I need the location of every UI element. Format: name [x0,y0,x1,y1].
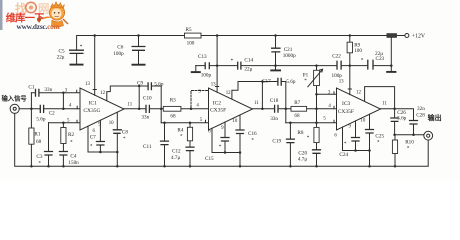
svg-text:33n: 33n [44,87,52,93]
svg-text:R2: R2 [68,132,74,138]
svg-text:100p: 100p [332,73,343,79]
svg-text:*: * [123,136,126,142]
svg-text:5.6p: 5.6p [286,79,295,85]
svg-text:*: * [80,44,83,50]
svg-text:C1: C1 [28,84,34,90]
svg-text:100p: 100p [201,72,212,78]
svg-text:IC2: IC2 [213,100,222,106]
svg-text:100p: 100p [113,51,124,57]
svg-text:C3: C3 [36,154,42,160]
svg-text:C8: C8 [122,130,128,136]
svg-text:*: * [180,133,183,139]
svg-text:*: * [307,135,310,141]
svg-text:68: 68 [294,113,300,119]
svg-text:10: 10 [360,118,365,123]
svg-text:C18: C18 [270,98,279,104]
svg-text:IC3: IC3 [342,101,351,107]
svg-text:C14: C14 [244,57,253,63]
svg-text:11: 11 [254,101,259,106]
svg-text:+12V: +12V [412,33,426,39]
svg-text:C23: C23 [376,56,385,62]
svg-text:100: 100 [187,41,195,47]
svg-text:R7: R7 [294,100,300,106]
svg-text:C12: C12 [172,149,181,155]
svg-text:C21: C21 [284,47,293,53]
svg-text:R5: R5 [186,27,192,33]
svg-text:C19: C19 [272,138,281,144]
svg-text:C20: C20 [298,150,307,156]
svg-text:R4: R4 [177,127,183,133]
svg-text:C24: C24 [339,152,348,158]
svg-text:输入信号: 输入信号 [2,93,28,102]
svg-text:*: * [38,161,41,167]
svg-text:13: 13 [339,79,344,84]
svg-text:C13: C13 [198,54,207,60]
svg-text:10: 10 [109,121,114,126]
svg-text:C16: C16 [248,131,257,137]
svg-text:11: 11 [382,101,387,106]
svg-text:C6: C6 [117,44,123,50]
svg-text:22μ: 22μ [57,55,65,61]
svg-text:22μ: 22μ [244,67,252,73]
svg-text:C28: C28 [416,112,425,118]
svg-text:C4: C4 [70,153,76,159]
svg-text:C22: C22 [332,53,341,59]
svg-text:C25: C25 [375,133,384,139]
svg-text:*: * [219,144,222,150]
svg-text:33n: 33n [141,114,149,120]
svg-text:CX35F: CX35F [210,108,226,114]
svg-text:*: * [344,141,347,147]
svg-text:C2: C2 [49,110,55,116]
svg-text:IC1: IC1 [89,101,98,107]
svg-text:CX35G: CX35G [83,108,100,114]
svg-text:*: * [90,144,93,150]
svg-text:100: 100 [354,48,362,54]
svg-text:输出: 输出 [428,113,442,122]
svg-text:5.6p: 5.6p [36,116,45,122]
svg-text:C17: C17 [262,79,271,85]
svg-text:CX35F: CX35F [338,109,354,115]
svg-text:C7: C7 [90,134,96,140]
svg-text:R3: R3 [170,97,176,103]
svg-text:*: * [361,57,364,63]
svg-text:68: 68 [36,139,42,145]
svg-text:12: 12 [100,91,105,96]
svg-text:10: 10 [232,119,237,124]
svg-text:68: 68 [170,113,176,119]
svg-text:5.6p: 5.6p [397,115,406,121]
svg-text:*: * [377,140,380,146]
svg-text:150n: 150n [68,160,79,166]
svg-text:*: * [70,140,73,146]
svg-text:4.7μ: 4.7μ [171,155,180,161]
svg-text:www.dzsc.com: www.dzsc.com [17,22,60,31]
svg-text:11: 11 [128,103,133,108]
svg-text:C10: C10 [143,95,152,101]
svg-text:C9: C9 [137,81,143,87]
svg-text:R1: R1 [34,132,40,138]
svg-text:*: * [251,137,254,143]
svg-text:12: 12 [226,91,231,96]
svg-text:32n: 32n [417,106,425,112]
svg-text:1000p: 1000p [283,53,296,59]
svg-text:C11: C11 [143,144,152,150]
svg-text:4.7μ: 4.7μ [298,157,307,163]
svg-text:*: * [231,58,234,64]
svg-text:12: 12 [356,91,361,96]
svg-text:13: 13 [211,83,216,88]
svg-text:5.6p: 5.6p [154,82,163,88]
svg-text:13: 13 [85,82,90,87]
svg-text:*: * [407,146,410,152]
svg-text:R8: R8 [297,130,303,136]
svg-text:*: * [304,78,307,84]
svg-text:33n: 33n [270,116,278,122]
svg-text:C15: C15 [205,156,214,162]
